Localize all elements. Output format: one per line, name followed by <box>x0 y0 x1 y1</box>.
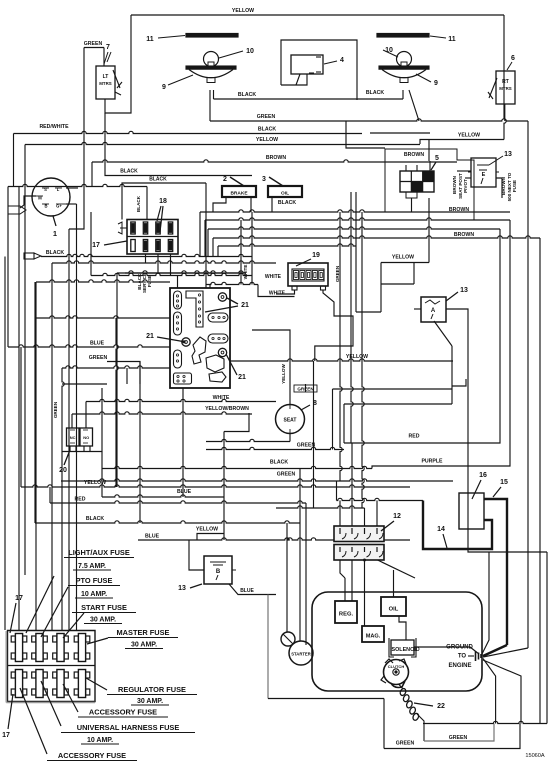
svg-text:15: 15 <box>500 479 508 486</box>
svg-text:MAG.: MAG. <box>366 634 381 640</box>
relay 5 outer box <box>385 149 474 220</box>
wire NC bottom pins <box>69 446 71 452</box>
svg-text:17: 17 <box>92 242 100 249</box>
pointer universal <box>41 681 61 726</box>
svg-text:13: 13 <box>178 585 186 592</box>
hour meter 19 <box>288 263 328 290</box>
switch BRAKE 2 <box>222 186 256 197</box>
wire bus 263 <box>52 261 276 263</box>
label 16 with pointer <box>472 472 487 499</box>
svg-text:17: 17 <box>2 732 10 739</box>
relay B 13 <box>200 556 236 584</box>
svg-text:WHITE: WHITE <box>265 274 282 280</box>
svg-text:RED: RED <box>409 434 420 440</box>
svg-text:BLACK: BLACK <box>149 177 167 183</box>
svg-text:LT: LT <box>103 74 109 80</box>
svg-text:NC: NC <box>70 435 76 440</box>
svg-text:MASTER FUSE: MASTER FUSE <box>117 628 170 637</box>
svg-text:17: 17 <box>15 595 23 602</box>
wire NC bottom pin2 <box>75 446 77 452</box>
svg-text:BLUE: BLUE <box>177 489 192 495</box>
wire lug run <box>41 254 170 256</box>
wire vert x19 <box>18 187 20 631</box>
light bar 11 (right) <box>377 34 429 38</box>
wire bus 384 <box>62 383 107 385</box>
wire 224 to B <box>223 534 225 541</box>
wire LT MTRS bottom to yellow riser <box>105 15 131 113</box>
switch OIL 3 <box>268 186 302 197</box>
label 30 AMP (master) <box>125 642 163 649</box>
terminal lug black <box>24 253 41 259</box>
wire hour meter right leg <box>315 290 353 361</box>
wire A bottom vert <box>451 346 453 404</box>
svg-text:GREEN: GREEN <box>84 41 103 47</box>
svg-text:BLACK: BLACK <box>270 460 288 466</box>
wire A right lead <box>446 309 547 552</box>
wire green lower bus <box>61 479 453 481</box>
wire yellow step <box>380 263 382 313</box>
wire white drop a <box>240 220 242 285</box>
svg-text:BROWN: BROWN <box>404 152 424 158</box>
svg-text:22: 22 <box>437 703 445 710</box>
wire black lower bus <box>102 466 372 468</box>
wire drop 344 <box>343 404 345 443</box>
wire bus 508 <box>276 506 365 508</box>
svg-text:E: E <box>482 172 486 178</box>
wire 12 drop d <box>376 501 378 527</box>
wire right vert 540 low <box>539 238 541 724</box>
wire green lamp drop <box>209 90 211 121</box>
wire ground fan thick15 <box>483 645 507 656</box>
svg-text:BLACK: BLACK <box>366 90 384 96</box>
svg-text:BLUE: BLUE <box>90 341 105 347</box>
wire riser 336.5 <box>336 481 338 501</box>
wire key G+ lead <box>66 203 77 205</box>
wire vert 351 mid <box>351 212 353 443</box>
label 30 AMP (regulator) <box>131 698 169 705</box>
wire 12 drop c <box>364 508 366 526</box>
svg-text:LIGHT/AUX FUSE: LIGHT/AUX FUSE <box>68 548 130 557</box>
svg-text:YELLOW: YELLOW <box>232 8 254 14</box>
wire vert x127 <box>126 368 128 384</box>
svg-text:REG.: REG. <box>339 612 354 618</box>
svg-text:BROWN: BROWN <box>266 155 286 161</box>
svg-text:21: 21 <box>241 302 249 309</box>
wire bus 404 <box>344 403 452 405</box>
relay 20 NO contact <box>80 428 93 446</box>
wire vert 140 <box>139 362 141 524</box>
wire seat bottom <box>289 434 291 442</box>
svg-text:RED/WHITE: RED/WHITE <box>39 124 69 130</box>
wire vert 224 <box>223 432 225 534</box>
wire 14 thick <box>423 501 492 550</box>
ground to engine symbol <box>468 651 481 661</box>
label 18 with pointer <box>157 198 167 232</box>
wire yellow 263 <box>381 262 429 264</box>
svg-text:YELLOW: YELLOW <box>256 137 278 143</box>
svg-text:12: 12 <box>393 513 401 520</box>
wire B left lead <box>189 540 204 570</box>
wire brown bus 162 <box>92 160 457 162</box>
wire vert 313.5 low <box>313 361 315 508</box>
wire bus 220 <box>205 218 510 220</box>
svg-text:BLACK: BLACK <box>136 195 141 212</box>
svg-text:PIVOT: PIVOT <box>463 179 468 193</box>
wire white module bus <box>86 399 276 401</box>
wire brake drop <box>250 197 252 212</box>
svg-text:BROWN: BROWN <box>452 175 457 194</box>
label 7 with pointer <box>104 44 111 64</box>
solenoid box <box>389 638 420 657</box>
wire reg feed 1 <box>344 578 346 601</box>
svg-text:3: 3 <box>262 176 266 183</box>
label 15 with pointer <box>493 479 508 497</box>
svg-text:CLUTCH: CLUTCH <box>388 664 405 669</box>
svg-text:YELLOW: YELLOW <box>281 364 286 384</box>
wire black bus 133 right <box>370 132 430 134</box>
wire seat top <box>305 384 307 392</box>
wire green right riser <box>527 121 529 648</box>
wire riser 205 <box>204 220 206 257</box>
label 14 with pointer <box>437 526 447 548</box>
wire key L lead <box>66 187 78 189</box>
svg-text:4: 4 <box>340 57 344 64</box>
engine outline <box>312 592 482 691</box>
svg-text:8: 8 <box>313 400 317 407</box>
connector 17/18 block <box>118 220 178 255</box>
wire hour meter left leg <box>276 290 295 294</box>
wire module top tap b <box>209 285 211 289</box>
label 4 with pointer <box>324 57 344 64</box>
wire yellow right riser <box>504 15 506 140</box>
wire seat riser <box>252 330 290 405</box>
oil OIL box <box>381 597 406 616</box>
svg-text:10: 10 <box>246 48 254 55</box>
wire A stub <box>452 379 466 386</box>
wire 13 left lead <box>465 177 471 179</box>
wire conn drop a <box>145 254 147 263</box>
wire oil-solenoid <box>399 616 406 640</box>
starter motor <box>281 632 313 665</box>
wire vert 356 step <box>356 311 381 313</box>
svg-text:GREEN: GREEN <box>396 741 415 747</box>
wire vert x62 <box>62 368 64 630</box>
svg-text:20: 20 <box>59 467 67 474</box>
wire white corner <box>258 285 295 297</box>
label LIGHT/AUX FUSE <box>64 548 134 558</box>
wire yellow console bus <box>230 359 453 361</box>
svg-text:13: 13 <box>460 287 468 294</box>
svg-text:YELLOW: YELLOW <box>196 527 218 533</box>
pointer start <box>63 613 84 638</box>
label 11 (right) with pointer <box>430 36 456 43</box>
wire ground fan 5 <box>483 660 521 724</box>
wire vert x76 <box>76 204 78 630</box>
svg-text:9: 9 <box>162 84 166 91</box>
wire vert 351b <box>350 192 352 212</box>
label 10 (left) with pointer <box>219 48 254 58</box>
svg-text:BROWN: BROWN <box>454 232 474 238</box>
svg-text:1: 1 <box>53 229 57 238</box>
wire yellow boxB <box>197 534 224 541</box>
wire bus 282 <box>36 280 170 282</box>
wire vert 117 <box>116 273 118 487</box>
svg-text:WHITE: WHITE <box>243 265 248 280</box>
label REGULATOR FUSE <box>107 685 197 695</box>
svg-text:7.5 AMP.: 7.5 AMP. <box>78 563 106 570</box>
wire green bus h <box>210 119 528 121</box>
svg-text:GREEN: GREEN <box>449 735 468 741</box>
svg-text:BLUE: BLUE <box>145 534 160 540</box>
wire riser 218 <box>217 246 219 257</box>
label 10 AMP (universal) <box>81 737 119 744</box>
relay A 13 <box>417 297 450 322</box>
svg-text:5: 5 <box>435 155 439 162</box>
wire 15 thick <box>484 499 507 645</box>
wire riser 208 <box>207 229 209 257</box>
label 21 (bottom) with pointer <box>226 354 246 381</box>
label 12 with pointer <box>381 513 401 531</box>
label 13 (A) with pointer <box>446 287 468 301</box>
wire bus 273 hops <box>125 271 246 273</box>
wire relay bracket drop <box>411 198 413 212</box>
wire relay20 bottom rail <box>62 388 102 452</box>
label GREEN (seat top) <box>294 385 317 392</box>
label UNIVERSAL HARNESS FUSE <box>61 723 195 733</box>
clutch <box>381 659 409 688</box>
label 5 with pointer <box>431 155 439 170</box>
wire green LT MTRS <box>69 48 84 230</box>
wire vert x35 <box>34 282 36 523</box>
svg-text:B: B <box>216 569 221 575</box>
wire reg feed 2 <box>351 592 353 601</box>
label 1 with pointer <box>53 216 57 238</box>
regulator box 16 <box>459 493 484 529</box>
wire black left bus <box>35 521 300 523</box>
wire vert 102 <box>101 452 103 498</box>
regulator REG box <box>335 601 357 623</box>
wire module4 lower lead <box>296 74 300 85</box>
svg-text:STARTER: STARTER <box>291 652 310 657</box>
wire black 175 <box>105 113 252 176</box>
wire purple bus <box>372 220 510 469</box>
svg-text:YELLOW: YELLOW <box>392 255 414 261</box>
svg-text:BLACK: BLACK <box>238 92 256 98</box>
svg-text:REGULATOR FUSE: REGULATOR FUSE <box>118 685 186 694</box>
wire red bus <box>344 229 500 443</box>
wire solenoid-right <box>414 647 479 654</box>
wire bottom green 748 <box>384 724 520 749</box>
wire bus 347 <box>8 345 170 347</box>
wire bus 540 <box>138 538 410 540</box>
svg-text:21: 21 <box>146 333 154 340</box>
svg-text:18: 18 <box>159 198 167 205</box>
headlight 9 (left) <box>186 52 236 83</box>
wire A left lead <box>414 308 421 310</box>
svg-text:OIL: OIL <box>389 607 399 613</box>
svg-text:2: 2 <box>223 176 227 183</box>
svg-text:RED: RED <box>75 497 86 503</box>
svg-text:GREEN: GREEN <box>335 265 340 282</box>
svg-text:10 AMP.: 10 AMP. <box>81 591 107 598</box>
svg-text:6: 6 <box>511 55 515 62</box>
wire NO top pin <box>85 402 87 429</box>
wire left lamp stem down <box>213 90 215 99</box>
wire bus 389 <box>333 388 453 390</box>
svg-text:ENGINE: ENGINE <box>448 663 471 669</box>
wire red/white bus <box>14 131 363 133</box>
label 6 with pointer <box>507 55 515 70</box>
svg-text:21: 21 <box>238 374 246 381</box>
wire bus 273 <box>117 272 246 274</box>
wire bus 212 <box>200 210 510 212</box>
svg-text:FUSE: FUSE <box>147 275 152 287</box>
wire NO bottom pin2 <box>89 446 91 452</box>
label MASTER FUSE <box>108 628 178 638</box>
svg-text:BRAKE: BRAKE <box>230 191 248 197</box>
svg-text:15060A: 15060A <box>525 753 545 759</box>
wire blue bus <box>102 495 224 497</box>
wire conn top riser <box>121 188 123 220</box>
wire vert 362 upper <box>362 212 364 508</box>
wire red left bus <box>50 501 306 503</box>
wire seat left link <box>206 439 290 441</box>
wire oil feed <box>393 570 395 597</box>
wire 12 out b <box>351 560 353 592</box>
wire brake curve <box>213 197 226 212</box>
seat switch 8 <box>276 405 305 434</box>
svg-text:16: 16 <box>479 472 487 479</box>
svg-text:GREEN: GREEN <box>53 401 58 418</box>
wire relay to 13 <box>457 170 471 172</box>
wire A diag <box>434 321 452 346</box>
wire green module <box>107 362 140 385</box>
label 9 (right) with pointer <box>416 74 438 87</box>
label 17 (fuse block bottom) with pointer <box>2 694 13 739</box>
svg-text:BLACK: BLACK <box>278 200 296 206</box>
wire yellow/brown bus <box>72 412 252 414</box>
label 9 (left) with pointer <box>162 75 193 91</box>
svg-text:PTO FUSE: PTO FUSE <box>76 576 113 585</box>
label 13 (top right) with pointer <box>489 151 512 165</box>
wire B blue to vert <box>267 595 269 699</box>
wire vert x13 <box>13 134 15 187</box>
wire white drop b <box>251 212 253 285</box>
svg-text:MTRS: MTRS <box>99 81 112 86</box>
wire ground fan 4 <box>483 659 496 724</box>
svg-text:FUSE: FUSE <box>512 180 517 192</box>
wire black 183 <box>122 183 206 188</box>
wire bottom bus 698 <box>268 698 384 700</box>
svg-text:BLACK: BLACK <box>46 250 64 256</box>
svg-text:10 AMP.: 10 AMP. <box>87 737 113 744</box>
svg-text:YELLOW: YELLOW <box>458 133 480 139</box>
pointer light/aux <box>26 576 54 633</box>
svg-text:30 AMP.: 30 AMP. <box>137 698 163 705</box>
svg-text:19: 19 <box>312 252 320 259</box>
wire brown drop 92 <box>91 162 93 187</box>
wire 12 out diag <box>378 560 416 578</box>
label 11 (left) with pointer <box>146 36 185 44</box>
label 22 with pointer <box>414 703 445 710</box>
wire vert x21 <box>20 347 22 487</box>
label 13 (B) with pointer <box>178 584 202 592</box>
svg-text:GREEN: GREEN <box>89 355 108 361</box>
wire green top run <box>84 47 104 49</box>
terminal lug (key) <box>8 206 26 214</box>
wire vert 340 upper <box>340 212 342 481</box>
wire 12 drop a <box>339 501 341 527</box>
label 2 with pointer <box>223 176 244 186</box>
svg-text:11: 11 <box>146 36 154 43</box>
wire white bus <box>206 282 258 284</box>
wire vert x116 <box>116 318 118 487</box>
svg-text:NO: NO <box>83 435 89 440</box>
label 19 with pointer <box>296 252 320 266</box>
label 8 with pointer <box>301 400 317 410</box>
wire bottom green 741 <box>424 724 494 742</box>
wire B right diag <box>229 584 276 595</box>
wire vert x69 <box>68 229 70 630</box>
pointer accessory mid <box>63 684 78 712</box>
svg-text:BLACK: BLACK <box>86 516 104 522</box>
svg-text:PURPLE: PURPLE <box>421 459 443 465</box>
wire yellow bus 144 <box>25 142 420 144</box>
wire starter feed 3 <box>305 503 307 645</box>
wire 13 right leads <box>496 178 502 198</box>
wire NO bottom pins <box>83 446 85 452</box>
relay 20 NC contact <box>67 428 80 446</box>
wire ground fan 1 <box>482 552 489 654</box>
svg-text:TO: TO <box>458 654 467 660</box>
svg-text:13: 13 <box>504 151 512 158</box>
wire left drop 24 <box>24 145 26 576</box>
wire yellow top bus <box>131 14 504 16</box>
wire yellow relay tail <box>428 198 430 263</box>
wire bus 238 <box>213 236 540 238</box>
wire NC top pin <box>71 414 73 428</box>
svg-text:BLACK: BLACK <box>258 127 276 133</box>
wire vert 183 <box>182 388 184 497</box>
label 17 (fuse block top) with pointer <box>10 595 23 633</box>
wire right lamp stem down <box>402 90 404 99</box>
label 7.5 AMP <box>73 563 111 570</box>
motor LT MTRS 7 <box>96 66 122 99</box>
wire bus 229 <box>208 227 500 229</box>
svg-text:START FUSE: START FUSE <box>81 603 127 612</box>
connector 12 upper <box>334 526 384 542</box>
svg-text:BLACK: BLACK <box>120 169 138 175</box>
svg-text:YELLOW/BROWN: YELLOW/BROWN <box>205 406 249 412</box>
wire chain lead <box>399 685 403 690</box>
wire vert x50 <box>49 487 51 503</box>
label 10 AMP (pto) <box>75 591 113 598</box>
label 20 with pointer <box>59 450 70 474</box>
label 21 (top) with pointer <box>205 298 249 312</box>
wire bus 368 <box>62 366 170 368</box>
svg-text:14: 14 <box>437 526 445 533</box>
svg-text:BLUE: BLUE <box>240 588 254 594</box>
wire right lamp diag to green <box>409 90 419 121</box>
magneto MAG box <box>362 626 384 642</box>
wire vert x52 <box>51 263 53 630</box>
wire vert x36 <box>35 282 37 630</box>
svg-text:WHITE: WHITE <box>213 395 230 401</box>
wire chain to green <box>417 714 424 741</box>
svg-text:ACCESSORY FUSE: ACCESSORY FUSE <box>58 751 126 760</box>
svg-text:SEAT: SEAT <box>284 418 297 424</box>
wire bottom bumps 724 <box>423 721 547 723</box>
